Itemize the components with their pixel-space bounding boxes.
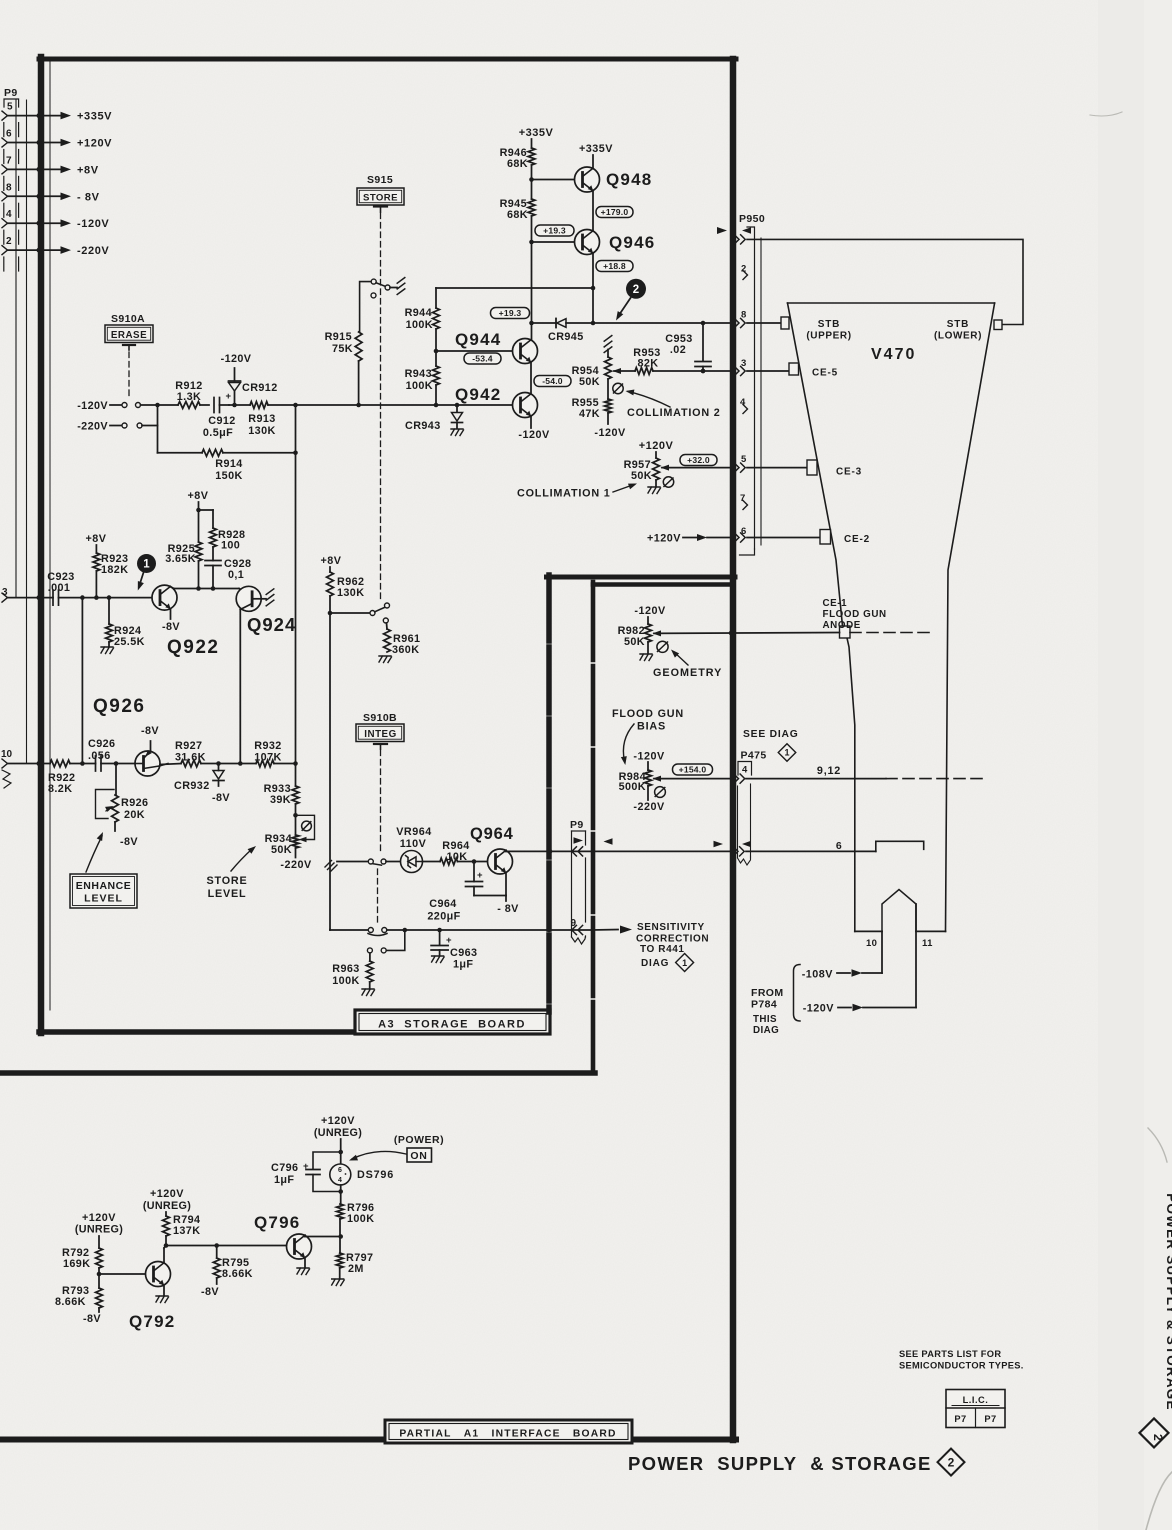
voltage callout +32.0 xyxy=(680,455,717,466)
svg-text:DS796: DS796 xyxy=(357,1169,394,1181)
A1 interface board bottom border xyxy=(0,1437,736,1443)
resistor R963 xyxy=(332,953,374,996)
svg-text:110V: 110V xyxy=(400,838,427,850)
svg-text:8.2K: 8.2K xyxy=(48,783,72,795)
svg-text:169K: 169K xyxy=(63,1258,90,1270)
capacitor C796 xyxy=(271,1152,341,1192)
svg-text:R963: R963 xyxy=(332,963,359,975)
node -120V above CR912 xyxy=(221,353,252,365)
svg-text:Q948: Q948 xyxy=(606,170,652,189)
label COLLIMATION 2 xyxy=(625,388,721,419)
diode CR912 xyxy=(229,368,278,407)
resistor R982 potentiometer xyxy=(618,624,661,648)
svg-text:0,1: 0,1 xyxy=(228,569,244,581)
svg-text:8.66K: 8.66K xyxy=(222,1268,253,1280)
adjustment screw (flood gun bias) xyxy=(655,787,666,798)
svg-text:2: 2 xyxy=(1151,1434,1165,1441)
wire Q792 collector xyxy=(164,1243,287,1262)
svg-text:CR932: CR932 xyxy=(174,780,210,792)
connector P950 mating arrows xyxy=(717,227,751,234)
svg-text:PARTIAL A1 INTERFACE BOA: PARTIAL A1 INTERFACE BOARD xyxy=(399,1429,616,1440)
connector P9 body ticks xyxy=(4,257,19,271)
svg-text:P475: P475 xyxy=(741,750,767,762)
terminal STB lower xyxy=(934,319,1002,342)
diode CR943 xyxy=(405,405,464,436)
svg-text:VR964: VR964 xyxy=(396,826,432,838)
svg-text:0.5μF: 0.5μF xyxy=(203,427,233,439)
svg-text:+179.0: +179.0 xyxy=(601,207,629,217)
node +8V (R962) xyxy=(320,555,341,572)
svg-text:+19.3: +19.3 xyxy=(543,226,566,236)
resistor R953 xyxy=(614,347,731,374)
svg-text:100K: 100K xyxy=(347,1213,374,1225)
connector P950 bracket xyxy=(740,227,762,555)
svg-text:Q924: Q924 xyxy=(247,614,296,635)
svg-text:SEE DIAG: SEE DIAG xyxy=(743,729,799,740)
svg-text:10: 10 xyxy=(866,938,877,949)
svg-text:R926: R926 xyxy=(121,797,148,809)
svg-text:POWER SUPPLY & STORAGE: POWER SUPPLY & STORAGE xyxy=(628,1453,932,1474)
svg-text:+120V: +120V xyxy=(150,1188,184,1200)
svg-text:THIS: THIS xyxy=(753,1014,777,1025)
tube pin 11 xyxy=(916,904,933,1008)
connector P950 pin 7 stub xyxy=(740,493,748,510)
connector P9 body ticks xyxy=(4,176,19,190)
wire +120V to P950 pin 6 xyxy=(647,533,731,545)
svg-text:+335V: +335V xyxy=(519,127,554,139)
svg-text:LEVEL: LEVEL xyxy=(84,893,123,905)
connector P475 pin 4 box xyxy=(738,762,752,776)
resistor R794 xyxy=(163,1214,201,1246)
svg-text:(UNREG): (UNREG) xyxy=(143,1200,191,1212)
switch S915 section 2 contacts xyxy=(330,603,390,623)
connector P950 pin 4 stub xyxy=(740,397,748,414)
svg-text:ERASE: ERASE xyxy=(111,330,147,341)
svg-text:31.6K: 31.6K xyxy=(175,752,206,764)
switch S915 linkage xyxy=(380,213,382,602)
resistor R926 potentiometer xyxy=(96,764,149,849)
resistor R927 xyxy=(175,740,256,767)
svg-text:+: + xyxy=(477,870,483,881)
wire -120V to pin 11 xyxy=(803,1003,916,1015)
svg-text:STB: STB xyxy=(818,319,840,330)
A3 storage board top-right border xyxy=(547,575,736,580)
svg-text:P7: P7 xyxy=(984,1414,996,1424)
capacitor C953 xyxy=(665,323,711,373)
wire Q944 collector xyxy=(529,242,534,340)
svg-text:L.I.C.: L.I.C. xyxy=(963,1395,989,1405)
svg-text:C796: C796 xyxy=(271,1162,298,1174)
connector P9 pin 4 wire -120V xyxy=(2,209,109,230)
svg-text:-220V: -220V xyxy=(633,801,665,813)
resistor R944 xyxy=(405,307,440,331)
svg-text:+: + xyxy=(226,391,232,402)
side diamond 2 xyxy=(1140,1418,1169,1447)
svg-text:2: 2 xyxy=(6,236,12,247)
connector pin 3 entry xyxy=(2,587,53,602)
svg-text:-120V: -120V xyxy=(633,751,665,763)
wire 6 to tube xyxy=(746,840,924,852)
svg-text:-120V: -120V xyxy=(518,429,550,441)
transistor Q942 xyxy=(455,385,538,418)
wire rail corner down to R944 xyxy=(435,288,437,308)
svg-text:(UPPER): (UPPER) xyxy=(806,331,851,342)
wire top feedback rail xyxy=(436,287,593,289)
terminal CE-3 xyxy=(807,460,862,478)
wire Q796 collector xyxy=(305,1234,343,1239)
svg-text:1: 1 xyxy=(143,559,150,571)
svg-text:Q922: Q922 xyxy=(167,637,219,658)
svg-text:CE-3: CE-3 xyxy=(836,467,862,478)
svg-text:47K: 47K xyxy=(579,408,600,420)
note SEE PARTS LIST xyxy=(899,1349,1024,1371)
wire Q924 base to chassis xyxy=(253,589,274,606)
switch S915 stem xyxy=(374,207,387,213)
svg-text:50K: 50K xyxy=(579,376,600,388)
resistor R797 xyxy=(332,1252,374,1286)
capacitor C912 xyxy=(203,391,236,439)
svg-text:-8V: -8V xyxy=(120,836,138,848)
wire -108V to pin 10 xyxy=(802,969,882,981)
svg-text:(POWER): (POWER) xyxy=(394,1134,444,1146)
switch S910B contacts (integrate) xyxy=(325,859,401,872)
node +335V (R946) xyxy=(519,127,554,148)
resistor R954 potentiometer xyxy=(572,336,621,388)
svg-text:Q796: Q796 xyxy=(254,1213,300,1232)
connector P9 body ticks xyxy=(4,150,19,164)
terminal CE-5 xyxy=(789,363,838,379)
connector P9 pin 5 bracket xyxy=(4,99,19,107)
diode CR945 xyxy=(532,319,596,344)
svg-text:COLLIMATION 2: COLLIMATION 2 xyxy=(627,407,721,419)
connector P9 (lower) mating arrows xyxy=(574,837,613,844)
svg-text:C964: C964 xyxy=(429,898,456,910)
svg-text:FLOOD GUN: FLOOD GUN xyxy=(612,708,684,720)
connector P9 pin 6 wire +120V xyxy=(2,129,112,150)
svg-text:+120V: +120V xyxy=(82,1212,116,1224)
svg-text:100K: 100K xyxy=(332,975,359,987)
resistor R934 potentiometer xyxy=(265,815,315,871)
wire sensitivity correction xyxy=(592,926,632,934)
voltage callout +18.8 xyxy=(596,261,633,272)
svg-text:Q942: Q942 xyxy=(455,385,501,404)
svg-text:+8V: +8V xyxy=(77,164,99,176)
svg-text:S915: S915 xyxy=(367,174,393,186)
svg-text:(UNREG): (UNREG) xyxy=(314,1127,362,1139)
resistor R928 xyxy=(210,528,246,561)
svg-text:8.66K: 8.66K xyxy=(55,1296,86,1308)
connector P9 pin 2 wire -220V xyxy=(2,236,109,257)
switch S910A stem xyxy=(123,345,135,350)
switch S910B label xyxy=(356,712,404,742)
resistor R955 xyxy=(572,379,626,439)
svg-text:-220V: -220V xyxy=(77,421,108,433)
resistor R984 potentiometer xyxy=(619,770,661,793)
svg-text:1.3K: 1.3K xyxy=(177,391,201,403)
tube pin 10 xyxy=(866,931,882,973)
transistor Q964 xyxy=(470,825,514,874)
connector P9 (lower) bracket xyxy=(572,831,586,944)
resistor R914 xyxy=(158,449,298,482)
svg-text:P9: P9 xyxy=(570,819,584,831)
svg-text:A3 STORAGE BOARD: A3 STORAGE BOARD xyxy=(378,1019,526,1031)
node -120V (Q942 emitter) xyxy=(518,416,550,441)
resistor R943 xyxy=(405,366,440,405)
board border left edge (A3 storage board) xyxy=(41,57,50,1033)
node +335V (Q948 collector) xyxy=(579,143,613,168)
wire R982 to CE-1 xyxy=(654,631,840,636)
transistor Q946 xyxy=(532,230,656,255)
svg-text:1μF: 1μF xyxy=(453,959,473,971)
svg-text:Q944: Q944 xyxy=(455,330,501,349)
connector P9 (lower) chevrons row 6 xyxy=(572,847,583,856)
svg-text:STORE: STORE xyxy=(207,875,248,887)
voltage callout +154.0 xyxy=(654,764,731,779)
resistor R922 xyxy=(48,760,96,795)
node +8V (R925/R928) xyxy=(187,490,213,528)
svg-text:150K: 150K xyxy=(215,470,242,482)
svg-text:(LOWER): (LOWER) xyxy=(934,331,982,342)
svg-text:10: 10 xyxy=(1,749,13,760)
diode CR932 xyxy=(174,764,230,805)
wire Q948 emitter to Q946 collector xyxy=(592,191,594,232)
wire Q944 emitter to Q942 collector xyxy=(530,362,532,393)
svg-text:DIAG: DIAG xyxy=(641,958,669,969)
wire R944 to Q944 base xyxy=(434,329,439,366)
transistor Q796 xyxy=(254,1213,312,1259)
transistor Q948 xyxy=(532,167,653,192)
svg-text:ENHANCE: ENHANCE xyxy=(76,880,131,892)
svg-text:DIAG: DIAG xyxy=(753,1025,779,1036)
switch S910B linkage xyxy=(378,750,381,925)
A3 storage board bottom border xyxy=(39,1029,357,1035)
svg-text:SEMICONDUCTOR TYPES.: SEMICONDUCTOR TYPES. xyxy=(899,1361,1024,1371)
svg-text:6: 6 xyxy=(338,1167,342,1174)
svg-text:+8V: +8V xyxy=(85,533,106,545)
svg-text:130K: 130K xyxy=(248,425,275,437)
svg-text:100K: 100K xyxy=(406,319,433,331)
connector P950 label xyxy=(739,213,765,225)
wire erase node vertical xyxy=(155,403,160,453)
voltage callout -53.4 xyxy=(464,353,501,364)
node -220V erase input xyxy=(77,421,122,433)
wire bus from P9 down left side xyxy=(16,100,27,764)
transistor Q792 xyxy=(99,1262,175,1332)
wire R945 to Q946 base node xyxy=(529,216,534,244)
svg-text:CR912: CR912 xyxy=(242,382,278,394)
storage tube V470 label xyxy=(871,346,916,363)
svg-text:+120V: +120V xyxy=(77,138,112,150)
connector P950 pin 6 xyxy=(734,526,821,542)
connector P475 bracket xyxy=(738,784,751,865)
svg-text:+335V: +335V xyxy=(579,143,613,155)
svg-text:-8V: -8V xyxy=(141,725,159,737)
svg-text:20K: 20K xyxy=(124,809,145,821)
capacitor C928 xyxy=(205,558,251,589)
voltage callout -54.0 xyxy=(534,376,571,387)
svg-text:1: 1 xyxy=(682,958,687,968)
svg-text:-120V: -120V xyxy=(221,353,252,365)
svg-text:TO R441: TO R441 xyxy=(640,944,685,955)
terminal CE-1 flood gun anode xyxy=(823,598,887,638)
node -8V (Q922 emitter) xyxy=(162,609,180,633)
switch S910A contacts (-120V) xyxy=(122,403,158,408)
svg-text:R932: R932 xyxy=(254,740,281,752)
resistor R957 potentiometer xyxy=(624,458,731,482)
svg-text:P7: P7 xyxy=(954,1414,966,1424)
resistor R964 xyxy=(423,840,488,865)
svg-text:.02: .02 xyxy=(670,344,686,356)
resistor R923 xyxy=(93,553,128,598)
resistor R933 xyxy=(264,783,299,818)
svg-text:C963: C963 xyxy=(450,947,477,959)
svg-text:P950: P950 xyxy=(739,213,765,225)
svg-text:R913: R913 xyxy=(248,413,275,425)
svg-text:137K: 137K xyxy=(173,1225,200,1237)
svg-text:COLLIMATION 1: COLLIMATION 1 xyxy=(517,488,611,500)
svg-text:R914: R914 xyxy=(215,458,242,470)
connector P950 pin 8 xyxy=(734,310,782,328)
label STORE LEVEL xyxy=(207,844,258,900)
resistor R915 xyxy=(325,331,362,405)
connector P950 pin top wire to STB lower xyxy=(734,235,1023,325)
connector P9 (lower) label xyxy=(570,819,584,831)
svg-text:25.5K: 25.5K xyxy=(114,636,145,648)
svg-text:1μF: 1μF xyxy=(274,1174,294,1186)
svg-text:-120V: -120V xyxy=(77,400,108,412)
svg-text:R927: R927 xyxy=(175,740,202,752)
svg-text:2M: 2M xyxy=(348,1263,364,1275)
wire flood gun bias to tube 9-12 xyxy=(746,765,986,779)
node -120V erase input xyxy=(77,400,122,412)
svg-text:4: 4 xyxy=(338,1177,342,1184)
A1 interface board inner border xyxy=(0,582,733,1073)
svg-text:+8V: +8V xyxy=(187,490,208,502)
svg-text:182K: 182K xyxy=(101,564,128,576)
wire Q946 emitter to node xyxy=(591,253,596,323)
node +8V (R923) xyxy=(85,533,106,553)
connector pin 10 entry xyxy=(1,749,50,788)
node +120V UNREG (R794) xyxy=(143,1188,191,1216)
switch S910B lower contacts xyxy=(367,930,404,953)
svg-text:SEE PARTS LIST FOR: SEE PARTS LIST FOR xyxy=(899,1349,1001,1359)
side label POWER SUPPLY & STORAGE xyxy=(1164,1193,1172,1410)
lamp DS796 xyxy=(330,1164,394,1185)
svg-text:+: + xyxy=(446,935,452,946)
svg-text:68K: 68K xyxy=(507,209,528,221)
svg-text:-120V: -120V xyxy=(594,427,626,439)
svg-text:+120V: +120V xyxy=(647,533,681,545)
wire Q964 collector xyxy=(506,849,731,854)
svg-text:+18.8: +18.8 xyxy=(603,261,626,271)
svg-text:GEOMETRY: GEOMETRY xyxy=(653,667,722,679)
node -120V (R984) xyxy=(633,751,665,771)
voltage callout +179.0 xyxy=(596,207,633,218)
svg-text:-8V: -8V xyxy=(83,1313,101,1325)
svg-text:V470: V470 xyxy=(871,346,916,363)
connector P9 body ticks xyxy=(4,230,19,244)
svg-text:CR943: CR943 xyxy=(405,420,441,432)
A1 interface board label box xyxy=(385,1420,632,1443)
connector P9 pin 7 wire +8V xyxy=(2,155,99,176)
resistor R924 xyxy=(101,598,145,654)
svg-text:+335V: +335V xyxy=(77,111,112,123)
capacitor C963 xyxy=(431,930,477,971)
storage tube V470 envelope xyxy=(788,303,995,931)
svg-text:4: 4 xyxy=(6,209,12,220)
svg-text:1: 1 xyxy=(784,748,789,758)
node -220V (R984) xyxy=(633,786,665,813)
resistor R793 xyxy=(55,1285,102,1325)
svg-text:C912: C912 xyxy=(208,415,235,427)
svg-text:ON: ON xyxy=(410,1150,427,1162)
transistor Q922 xyxy=(152,585,219,658)
wire to P950 pin 8 xyxy=(593,321,731,326)
svg-text:.001: .001 xyxy=(48,582,71,594)
label FROM P784 THIS DIAG xyxy=(751,965,800,1037)
svg-text:S910A: S910A xyxy=(111,313,145,325)
svg-text:-8V: -8V xyxy=(201,1286,219,1298)
svg-text:500K: 500K xyxy=(619,781,646,793)
svg-text:SENSITIVITY: SENSITIVITY xyxy=(637,922,705,933)
svg-text:CE-5: CE-5 xyxy=(812,368,838,379)
board border right edge (A1 interface board) xyxy=(730,59,737,1440)
ground (Q796 emitter) xyxy=(297,1259,310,1275)
ground (R982) xyxy=(640,642,653,661)
svg-text:FLOOD GUN: FLOOD GUN xyxy=(823,609,887,620)
svg-text:- 8V: - 8V xyxy=(497,903,519,915)
svg-text:BIAS: BIAS xyxy=(637,721,666,733)
adjustment screw (geometry) xyxy=(657,641,668,652)
svg-text:4: 4 xyxy=(742,765,748,776)
switch S910A linkage xyxy=(128,352,130,398)
title diamond 2 xyxy=(937,1449,964,1476)
node +120V UNREG (DS796) xyxy=(314,1115,362,1164)
node -8V (Q926 emitter) xyxy=(141,725,159,737)
svg-text:Q926: Q926 xyxy=(93,696,145,717)
svg-text:-108V: -108V xyxy=(802,969,834,981)
svg-text:50K: 50K xyxy=(631,470,652,482)
svg-text:+32.0: +32.0 xyxy=(687,455,710,465)
wire pin3-pin10 tie xyxy=(81,598,83,764)
wire Q924 collector xyxy=(240,604,252,764)
reference balloon 2 xyxy=(613,279,646,322)
svg-text:CE-2: CE-2 xyxy=(844,534,870,545)
svg-text:+: + xyxy=(303,1161,309,1172)
svg-text:6: 6 xyxy=(836,840,842,852)
diagram reference diamond 1 (sensitivity) xyxy=(676,954,694,972)
switch S910B contacts (row 9) xyxy=(330,928,592,936)
resistor R961 xyxy=(379,623,420,663)
svg-text:6: 6 xyxy=(6,129,12,140)
resistor R795 xyxy=(201,1246,253,1299)
voltage callout +19.3 (Q946 base) xyxy=(535,225,574,236)
wire CE-1 anode dashed xyxy=(850,632,930,634)
wire R946-R945 xyxy=(529,165,534,199)
resistor R946 xyxy=(500,147,535,170)
node -8V (Q964 emitter) xyxy=(497,874,519,915)
connector P9 body ticks xyxy=(4,203,19,217)
page curl marks xyxy=(1090,112,1172,1530)
connector P9 (lower) pin 9 xyxy=(571,918,583,935)
capacitor C923 xyxy=(47,571,152,605)
resistor R925 xyxy=(165,510,202,589)
svg-text:CE-1: CE-1 xyxy=(823,598,848,609)
transistor Q926 (PNP) xyxy=(93,696,168,776)
diagram reference diamond 1 (P475) xyxy=(778,744,796,762)
wire vertical junction to lower rail xyxy=(295,405,297,786)
resistor R932 xyxy=(254,740,298,767)
